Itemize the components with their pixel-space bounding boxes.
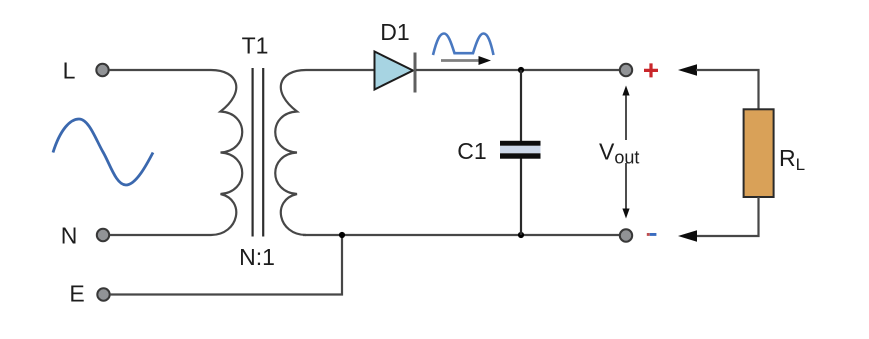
- sine wave source symbol: [53, 119, 153, 185]
- wire E to bottom rail: [110, 235, 342, 295]
- wire top rail down to capacitor: [520, 70, 522, 141]
- capacitor C1 bottom plate: [500, 153, 541, 158]
- wire L to transformer primary + primary winding + wire back to N: [109, 70, 242, 235]
- wire secondary bottom rail to minus terminal: [303, 234, 620, 236]
- wire load top: [696, 70, 759, 110]
- Vout arrow top head (up): [622, 86, 629, 96]
- svg-text:N:1: N:1: [239, 244, 275, 270]
- Vout arrow top shaft: [625, 95, 627, 140]
- junction dot top rail / capacitor: [518, 67, 524, 73]
- transformer T1 core line left: [252, 68, 254, 237]
- load top arrowhead (points left): [678, 64, 697, 75]
- capacitor C1 dielectric gap: [500, 146, 541, 154]
- junction dot bottom rail / capacitor: [518, 232, 524, 238]
- wire diode cathode to plus terminal: [416, 69, 620, 71]
- current direction arrow head: [479, 56, 492, 65]
- Vout arrow bottom head (down): [622, 209, 629, 219]
- output terminal plus: [620, 64, 632, 76]
- junction dot E / bottom rail: [339, 232, 345, 238]
- load bottom arrowhead (points left): [678, 230, 697, 241]
- resistor RL body: [744, 109, 774, 197]
- transformer T1 core line right: [262, 68, 264, 237]
- plus sign (red): [644, 63, 658, 77]
- terminal E: [97, 288, 109, 300]
- svg-text:T1: T1: [242, 33, 269, 59]
- current direction arrow shaft: [441, 59, 479, 62]
- diode D1 triangle: [375, 52, 414, 90]
- secondary winding + wire to diode anode (top): [275, 70, 374, 235]
- capacitor C1 top plate: [500, 141, 541, 146]
- svg-text:D1: D1: [380, 19, 409, 45]
- diode D1 cathode bar: [414, 53, 417, 93]
- rectified waveform symbol: [433, 34, 494, 56]
- svg-text:C1: C1: [457, 138, 486, 164]
- output terminal minus: [620, 229, 632, 241]
- svg-text:N: N: [61, 223, 78, 249]
- Vout arrow bottom shaft: [625, 163, 627, 209]
- terminal L: [96, 64, 108, 76]
- terminal N: [97, 229, 109, 241]
- minus sign (red/blue): [647, 233, 650, 236]
- wire capacitor down to bottom rail: [520, 159, 522, 236]
- svg-text:L: L: [63, 58, 76, 84]
- wire load bottom: [696, 197, 759, 236]
- svg-text:E: E: [69, 281, 84, 307]
